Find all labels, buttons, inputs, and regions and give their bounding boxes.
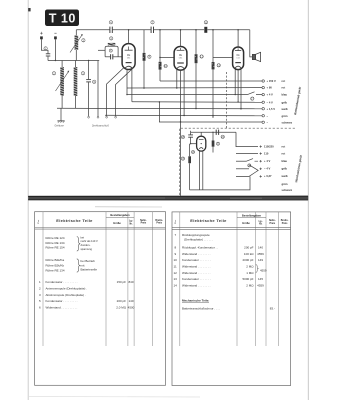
svg-text:5000 pF: 5000 pF: [242, 277, 253, 281]
label 8: [148, 55, 151, 59]
capacitor C3 coupling cap: [110, 27, 112, 33]
svg-text:gelb: gelb: [282, 167, 288, 171]
junction dots buses: [126, 87, 242, 123]
svg-text:+ 90: + 90: [267, 86, 273, 90]
svg-text:2 MΩ: 2 MΩ: [246, 284, 254, 288]
label 3: [81, 71, 84, 75]
grid leak resistor R5: [108, 43, 116, 46]
model label T10 badge: [45, 10, 79, 27]
svg-text:Brutto-: Brutto-: [281, 219, 289, 222]
svg-text:rot: rot: [282, 144, 286, 148]
svg-text:Mechanische Teile:: Mechanische Teile:: [182, 299, 209, 303]
resistor R12: [195, 30, 198, 109]
svg-text:Preis: Preis: [156, 223, 162, 225]
grid leak loop wire: [105, 46, 118, 57]
svg-text:+ 0,37: + 0,37: [264, 174, 272, 178]
tube V2 AF amplifier: [174, 30, 187, 70]
right parts table: [172, 212, 291, 386]
bus wire L2: [127, 87, 262, 89]
capacitor C1 antenna series cap: [46, 54, 51, 61]
wire: [207, 29, 249, 31]
svg-text:T 10: T 10: [49, 12, 76, 26]
label 17: [251, 97, 255, 101]
svg-text:Abstimmspule (Drehkoplatte) .: Abstimmspule (Drehkoplatte) .: [46, 293, 87, 297]
svg-text:Kondensator . . . . . .: Kondensator . . . . . . .: [182, 258, 211, 262]
tube V3 output: [233, 30, 244, 70]
svg-text:Elektrische Teile: Elektrische Teile: [190, 218, 227, 223]
svg-text:weiß: weiß: [281, 107, 288, 111]
svg-text:Widerstand . . . . . .: Widerstand . . . . . . . .: [182, 271, 211, 275]
svg-text:− 4 V: − 4 V: [267, 100, 274, 104]
label 1: [44, 46, 47, 50]
svg-text:weiß: weiß: [281, 174, 288, 178]
svg-text:1 MΩ: 1 MΩ: [246, 271, 254, 275]
svg-text:RE: RE: [127, 54, 131, 57]
svg-text:Brutto-: Brutto-: [155, 219, 163, 222]
svg-text:+ 150 V: + 150 V: [267, 79, 277, 83]
svg-text:Widerstand . . . . . .: Widerstand . . . . . . . .: [182, 265, 211, 269]
mains terminal texts: [264, 144, 293, 192]
svg-text:gelb: gelb: [282, 100, 288, 104]
corner mark top-left: [28, 8, 30, 11]
resistor R21: [212, 132, 215, 153]
svg-text:+ 4 V: + 4 V: [267, 93, 274, 97]
svg-text:Widerstand . . . . . .: Widerstand . . . . . . . .: [182, 252, 211, 256]
svg-text:4559: 4559: [260, 269, 267, 273]
wire: [154, 29, 204, 31]
svg-text:Pos.: Pos.: [38, 219, 40, 224]
svg-text:Lg.-: Lg.-: [129, 221, 133, 223]
svg-text:Batterieanschlußschnur . .: Batterieanschlußschnur . . . .: [182, 306, 220, 310]
svg-text:Röhre RE 124: Röhre RE 124: [46, 236, 65, 240]
svg-text:Kondensator . . . . . .: Kondensator . . . . . . .: [182, 277, 211, 281]
page left edge: [27, 0, 29, 400]
speaker: [250, 30, 261, 62]
svg-text:Kondensator . . . . . .: Kondensator . . . . . . . . .: [46, 299, 78, 303]
label 12: [200, 55, 204, 59]
svg-text:Bestellangaben: Bestellangaben: [242, 213, 262, 217]
svg-text:Drehkoanschluß: Drehkoanschluß: [92, 125, 109, 127]
svg-text:Rückkopplungsspule: Rückkopplungsspule: [182, 233, 210, 237]
tube V4 pins: [199, 151, 201, 190]
svg-text:10: 10: [174, 258, 178, 262]
svg-text:grün: grün: [282, 182, 288, 186]
coil L2 grid coil: [74, 61, 78, 109]
svg-text:Nr.: Nr.: [259, 224, 262, 226]
wire: [113, 29, 151, 31]
svg-text:Röhre RE 154: Röhre RE 154: [46, 246, 65, 250]
svg-text:Bestellangaben: Bestellangaben: [110, 213, 130, 217]
wire grid loop to coil node: [98, 49, 105, 51]
svg-text:149: 149: [258, 258, 263, 262]
label 11: [204, 20, 208, 24]
svg-text:12: 12: [174, 271, 178, 275]
svg-text:Röhre RE 134: Röhre RE 134: [46, 269, 65, 273]
antenna terminal A1: [40, 32, 43, 40]
tube V2 pins down: [176, 70, 178, 88]
coil L1 tuning coil: [60, 61, 64, 109]
wire input node bus: [48, 60, 99, 62]
ground drop: [60, 108, 62, 121]
svg-text:4559: 4559: [257, 252, 264, 256]
svg-text:Größe: Größe: [113, 221, 121, 225]
svg-text:Preis: Preis: [141, 223, 147, 225]
tuning capacitor connection stubs: [88, 116, 117, 118]
svg-text:840: 840: [128, 280, 133, 284]
svg-text:13: 13: [174, 277, 178, 281]
label 10: [164, 64, 168, 68]
bus wire L3: [127, 94, 248, 96]
svg-text:2 MΩ: 2 MΩ: [246, 265, 254, 269]
svg-text:14: 14: [174, 284, 178, 288]
svg-text:Röhre B2k/Ka: Röhre B2k/Ka: [46, 258, 65, 262]
svg-text:Rückkoppl.-Kondensator . .: Rückkoppl.-Kondensator . .: [182, 245, 218, 249]
svg-text:Antennenspule (Drehkoplatte) .: Antennenspule (Drehkoplatte) .: [46, 286, 88, 290]
label 6: [93, 80, 96, 84]
svg-text:schwarz: schwarz: [282, 188, 293, 192]
terminal group battery set: [262, 80, 264, 124]
svg-text:Gehäuse: Gehäuse: [55, 125, 65, 127]
svg-text:Netto-: Netto-: [140, 219, 147, 222]
tube V4 rectifier: [197, 132, 206, 151]
wire A1 down to antenna capacitor: [41, 39, 48, 53]
label 16: [191, 150, 195, 154]
page right edge: [307, 0, 309, 400]
label 7: [151, 20, 154, 24]
top anode supply wire: [76, 29, 109, 31]
svg-text:140: 140: [128, 299, 133, 303]
capacitor C7 coupling cap: [151, 27, 153, 33]
svg-text:rot: rot: [282, 79, 286, 83]
svg-text:Lg.-: Lg.-: [259, 221, 263, 223]
resistor R9 grid leak stage2: [159, 62, 162, 81]
svg-text:2000 pF: 2000 pF: [242, 258, 253, 262]
label 13: [217, 63, 221, 67]
svg-text:bei: bei: [81, 235, 85, 239]
svg-text:blau: blau: [282, 93, 288, 97]
scan fold band: [28, 196, 308, 207]
resistor R19: [188, 143, 191, 190]
svg-text:140: 140: [258, 245, 263, 249]
svg-text:schwarz: schwarz: [282, 120, 293, 124]
svg-text:Elektrische Teile: Elektrische Teile: [56, 218, 93, 223]
dashed enclosure mains unit: [180, 128, 296, 195]
mains terminals wires: [236, 132, 258, 146]
label 21: [216, 142, 220, 146]
svg-text:Nr.: Nr.: [130, 223, 133, 225]
bus wire L4: [132, 101, 262, 104]
plug triangle: [249, 165, 258, 177]
battery terminal texts: [267, 79, 293, 124]
svg-text:83.-: 83.-: [270, 306, 275, 310]
capacitor C20: [216, 130, 218, 135]
svg-text:Batteriezelle: Batteriezelle: [81, 268, 98, 272]
label 19: [181, 157, 185, 161]
svg-text:Größe: Größe: [242, 221, 250, 225]
svg-text:spannung: spannung: [81, 248, 93, 251]
capacitor C11 grid cap stage3: [204, 27, 207, 33]
resistor R13: [212, 30, 215, 118]
mains terminal plus marks: [260, 145, 262, 177]
label 15: [181, 135, 185, 139]
svg-text:4500: 4500: [128, 305, 135, 309]
tube V3 pins down: [234, 69, 236, 94]
svg-text:grün: grün: [282, 114, 288, 118]
svg-text:Widerstand . . . . . .: Widerstand . . . . . . . .: [182, 284, 211, 288]
label 5: [110, 36, 113, 40]
label 18: [248, 164, 252, 168]
arrow variometer L1: [56, 71, 69, 91]
svg-text:Kondensator . . . . . .: Kondensator . . . . . . . . .: [46, 280, 78, 284]
label 2: [52, 71, 55, 75]
dashed vertical alternate feed: [226, 72, 228, 128]
bus wire L1: [160, 80, 262, 82]
svg-text:Röhre B2k/Kb: Röhre B2k/Kb: [46, 263, 65, 267]
svg-text:rot: rot: [282, 86, 286, 90]
diagonal filament wires V1: [107, 68, 124, 117]
left parts table: [35, 212, 166, 386]
svg-text:2,0 MΩ: 2,0 MΩ: [116, 305, 127, 309]
rectifier wire top: [191, 131, 236, 133]
switch S1 on battery row3: [248, 92, 263, 95]
svg-text:+ 4 V: + 4 V: [264, 159, 271, 163]
svg-text:145: 145: [258, 277, 263, 281]
svg-text:Röhre RE 134: Röhre RE 134: [46, 241, 65, 245]
antenna terminal A2: [54, 33, 57, 39]
wire coupling node down: [159, 30, 161, 62]
svg-text:150 pF: 150 pF: [117, 280, 127, 284]
svg-text:Preis: Preis: [282, 223, 288, 225]
mains unit bottom wire: [190, 176, 250, 190]
wire A2 down: [54, 39, 56, 60]
wire to tube V4: [191, 143, 197, 145]
svg-text:Pos.: Pos.: [175, 219, 177, 224]
svg-text:mehr als 110 V: mehr als 110 V: [81, 239, 99, 243]
switch S2 mains: [247, 159, 259, 162]
svg-text:RE: RE: [179, 54, 183, 57]
capacitor C5 grid condenser: [105, 54, 122, 59]
bus wire L7: [159, 102, 262, 122]
svg-text:110/220: 110/220: [264, 144, 274, 148]
bus wire L5 ground rail: [57, 107, 262, 110]
label 6a: [109, 49, 112, 53]
wire long vertical to mains unit: [180, 122, 182, 196]
capacitor C15: [188, 131, 193, 144]
resistor R8 anode resistor: [143, 30, 146, 88]
svg-text:200 pF: 200 pF: [117, 299, 127, 303]
svg-text:Widerstand . . . . . .: Widerstand . . . . . . . . . .: [46, 305, 78, 309]
tube V1 pins down: [126, 70, 128, 95]
svg-text:11: 11: [174, 265, 177, 269]
svg-text:Preis: Preis: [269, 223, 275, 225]
junction dots top wire: [55, 29, 239, 61]
label 20: [221, 135, 225, 139]
label 2a: [82, 38, 85, 42]
svg-text:Anoden-: Anoden-: [81, 243, 91, 247]
wire to tuning capacitor stator: [97, 61, 99, 117]
svg-text:rot: rot: [282, 151, 286, 155]
svg-text:− 4 V: − 4 V: [264, 167, 271, 171]
svg-text:blau: blau: [282, 159, 288, 163]
svg-text:110: 110: [264, 151, 269, 155]
svg-text:4559: 4559: [257, 284, 264, 288]
arrow variometer L3: [70, 35, 82, 53]
capacitor C6 tank cap: [86, 61, 91, 117]
coil L3 antenna coupling coil: [75, 30, 79, 61]
tube V1 detector: [122, 30, 135, 70]
svg-text:100 kΩ: 100 kΩ: [244, 252, 254, 256]
wire grid stage2: [160, 56, 174, 58]
svg-text:Netto-: Netto-: [269, 219, 276, 222]
wire grid stage3: [213, 57, 233, 59]
svg-text:(Drehkoplatte) . . . . .: (Drehkoplatte) . . . . . .: [184, 238, 213, 242]
ground chassis symbol: [57, 121, 64, 123]
svg-text:+ 1,5 V: + 1,5 V: [267, 107, 276, 111]
svg-text:200 pF: 200 pF: [244, 245, 254, 249]
bus wire L6: [105, 114, 262, 117]
label 4: [109, 20, 112, 24]
